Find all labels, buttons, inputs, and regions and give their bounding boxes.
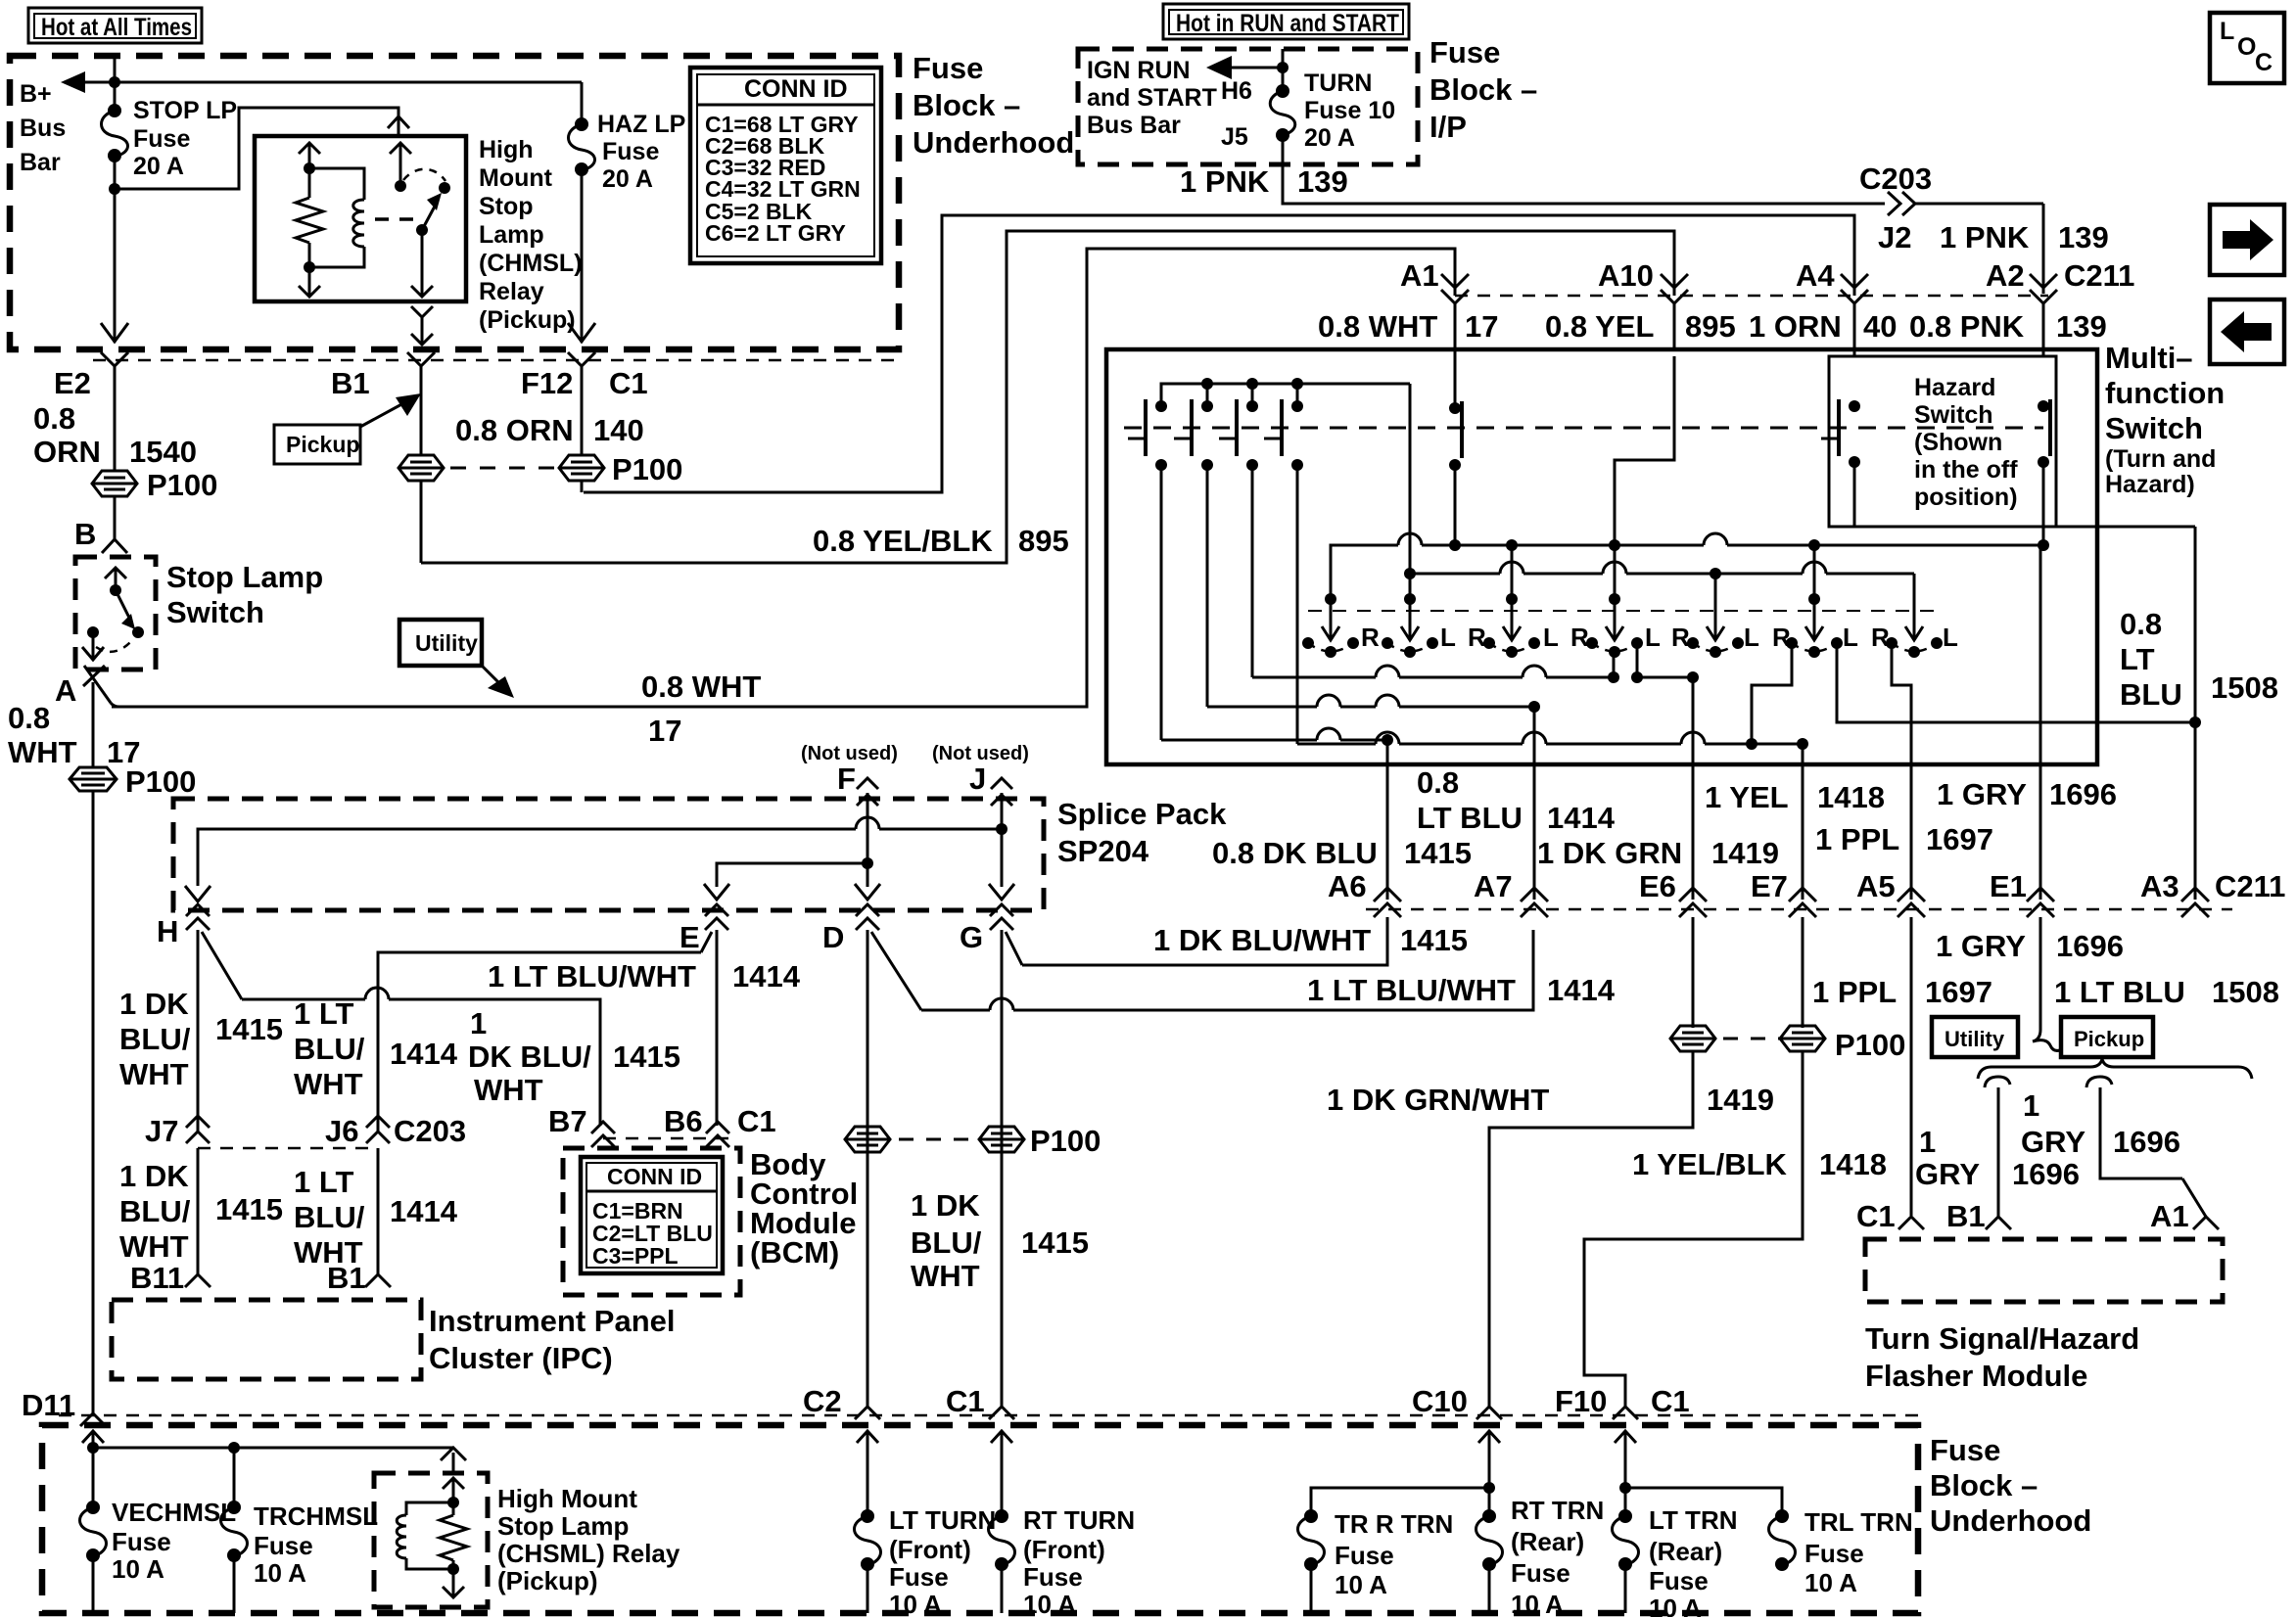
text 1 PPL 1697 (A5 below) [1812, 975, 1992, 1009]
svg-text:139: 139 [2056, 309, 2107, 344]
svg-text:20 A: 20 A [1304, 124, 1355, 152]
stop lamp switch blade [116, 590, 144, 638]
inline connector P100 (E2 wire) [92, 471, 137, 496]
relay entry arrow [443, 1478, 464, 1508]
svg-text:Instrument Panel: Instrument Panel [429, 1304, 676, 1338]
F10/C1 feed arrow [1615, 1431, 1636, 1456]
svg-text:895: 895 [1685, 309, 1736, 344]
svg-text:1 LT BLU/WHT: 1 LT BLU/WHT [1307, 973, 1516, 1007]
svg-text:0.8: 0.8 [33, 401, 75, 436]
svg-text:A2: A2 [1986, 258, 2025, 293]
wire hazard A4 lower to LT BLU exit [1854, 462, 2195, 527]
svg-text:Underhood: Underhood [913, 125, 1074, 160]
E1 exit wire [2039, 764, 2042, 900]
svg-text:J5: J5 [1221, 123, 1248, 151]
fuse block connector row thin dashed (bottom) [59, 1414, 1918, 1417]
svg-text:G: G [960, 920, 983, 954]
svg-text:1418: 1418 [1817, 780, 1885, 814]
svg-text:20 A: 20 A [602, 165, 653, 193]
svg-text:LT TRN: LT TRN [1649, 1505, 1738, 1535]
svg-text:Fuse: Fuse [889, 1562, 949, 1592]
svg-text:Utility: Utility [1945, 1027, 2005, 1051]
hazard actuation dashed [1829, 427, 2043, 430]
flasher pickup hook wire [2086, 1077, 2206, 1217]
svg-text:A1: A1 [1400, 258, 1439, 293]
svg-text:WHT: WHT [119, 1057, 189, 1091]
svg-text:0.8 YEL: 0.8 YEL [1545, 309, 1654, 344]
multifunction switch box [1106, 349, 2097, 764]
svg-text:Stop: Stop [479, 193, 534, 220]
contact column 4 [1264, 378, 1303, 471]
flasher A1 connector chevron [2193, 1217, 2219, 1229]
svg-text:0.8 ORN: 0.8 ORN [455, 413, 574, 447]
svg-text:1696: 1696 [2012, 1157, 2080, 1191]
A2 connector chevrons [2030, 274, 2057, 356]
svg-text:C1: C1 [1856, 1199, 1896, 1233]
E7 exit wire [1802, 744, 1804, 900]
node resistor bottom [304, 261, 315, 273]
svg-text:Relay: Relay [479, 278, 544, 305]
svg-text:10 A: 10 A [1649, 1594, 1702, 1617]
svg-text:E7: E7 [1751, 869, 1788, 903]
wire A down 0.8 WHT 17 [92, 707, 95, 767]
wire B+ to HAZ LP fuse [581, 82, 584, 123]
svg-text:HAZ LP: HAZ LP [597, 111, 685, 138]
wire junction down to E2 with arrow [101, 189, 128, 343]
svg-text:B11: B11 [130, 1261, 184, 1295]
svg-text:1415: 1415 [1021, 1225, 1089, 1260]
wire B1 P100 to YEL/BLK elbow [420, 481, 423, 563]
svg-text:0.8 YEL/BLK: 0.8 YEL/BLK [813, 524, 993, 558]
text 1 DK BLU/WHT (J7 above) [119, 987, 191, 1091]
text 0.8 LT BLU (right) [2120, 607, 2182, 712]
LOC legend box [2210, 13, 2284, 83]
E6 exit wire [1692, 677, 1695, 900]
A7 exit wire [1533, 707, 1536, 900]
text Fuse Block - I/P [1429, 35, 1537, 144]
E connector below splice [705, 904, 728, 930]
fuse STOP LP 20A [102, 104, 128, 162]
svg-text:Flasher Module: Flasher Module [1865, 1359, 2087, 1393]
svg-text:20 A: 20 A [133, 153, 184, 180]
svg-text:1697: 1697 [1926, 822, 1993, 856]
text 1 LT BLU/WHT (J6 above) [294, 996, 365, 1101]
svg-text:P100: P100 [1030, 1124, 1101, 1158]
svg-text:10 A: 10 A [1511, 1590, 1564, 1617]
wire top to TURN fuse [1282, 49, 1285, 90]
svg-text:Fuse: Fuse [1930, 1433, 2000, 1467]
text Stop Lamp Switch [166, 560, 323, 629]
splice pack dashed box [173, 799, 1044, 910]
wire HAZ LP fuse down to C1 with arrow [568, 169, 595, 343]
svg-text:WHT: WHT [911, 1259, 980, 1293]
A5 connector chevrons [1898, 888, 1925, 1216]
svg-text:1 LT: 1 LT [294, 1165, 353, 1199]
svg-text:ORN: ORN [33, 435, 101, 469]
contact column 1 [1128, 399, 1167, 471]
svg-text:L: L [2220, 18, 2234, 45]
svg-text:LT: LT [2120, 642, 2155, 676]
text Hazard Switch (Shown in the off position) [1914, 374, 2018, 511]
svg-text:function: function [2105, 376, 2225, 410]
svg-text:Fuse: Fuse [602, 138, 659, 165]
svg-text:10 A: 10 A [254, 1558, 306, 1588]
BCM connector row thin dashed [603, 1137, 729, 1140]
text (Not used) F [801, 743, 898, 796]
text Fuse Block - Underhood (bottom) [1930, 1433, 2091, 1538]
svg-text:C1: C1 [946, 1384, 985, 1418]
wire H diagonal to B7 line [202, 932, 600, 1126]
svg-text:0.8: 0.8 [1417, 765, 1459, 800]
svg-text:1415: 1415 [215, 1012, 283, 1046]
text 1 GRY 1696 (E1 above) [1937, 777, 2117, 811]
B1 female connector (IPC) [365, 1274, 391, 1287]
svg-text:C: C [2255, 49, 2273, 76]
wire D diagonal to A7 line [871, 930, 1533, 1010]
svg-text:1697: 1697 [1925, 975, 1992, 1009]
bus B [1404, 562, 1914, 599]
wire F12 P100 down to ORN elbow [581, 481, 584, 492]
svg-text:Fuse: Fuse [133, 125, 190, 153]
svg-text:CONN ID: CONN ID [744, 75, 848, 103]
relay actuation dashed link [375, 217, 419, 221]
text RT TRN (Rear) Fuse 10 A [1511, 1496, 1604, 1617]
svg-text:Fuse: Fuse [1023, 1562, 1083, 1592]
svg-text:A4: A4 [1796, 258, 1835, 293]
relay coil (bottom) [397, 1502, 453, 1569]
splice bus [198, 817, 1007, 886]
J wire to G arrow [989, 829, 1014, 900]
svg-text:Underhood: Underhood [1930, 1503, 2091, 1538]
svg-text:1 DK BLU/WHT: 1 DK BLU/WHT [1153, 923, 1371, 957]
svg-text:(Front): (Front) [1023, 1535, 1105, 1564]
node junction on B+ line [109, 76, 120, 88]
svg-text:P100: P100 [147, 468, 217, 502]
svg-text:1 ORN: 1 ORN [1749, 309, 1842, 344]
svg-text:H: H [157, 914, 178, 948]
svg-text:A10: A10 [1598, 258, 1654, 293]
svg-text:P100: P100 [1835, 1028, 1905, 1062]
svg-text:TRCHMSL: TRCHMSL [254, 1501, 378, 1531]
svg-text:LT TURN: LT TURN [889, 1505, 996, 1535]
svg-text:1 DK: 1 DK [911, 1188, 980, 1223]
connector C203 chevrons on PNK wire [1888, 192, 2043, 215]
wire G down to C1 [1001, 930, 1004, 1407]
text 1 DK GRN/WHT 1419 [1327, 1083, 1774, 1117]
svg-text:1 GRY: 1 GRY [1936, 929, 2026, 963]
svg-text:1 LT BLU: 1 LT BLU [2054, 975, 2185, 1009]
dashes between BCM P100 pair [899, 1138, 971, 1141]
fuse TRL TRN 10A [1769, 1509, 1796, 1571]
E2 female connector [101, 352, 128, 470]
text HAZ LP Fuse 20 A [597, 111, 685, 193]
svg-text:B1: B1 [327, 1261, 366, 1295]
IGN RUN arrow [1206, 56, 1289, 79]
svg-text:BLU/: BLU/ [294, 1200, 365, 1234]
wire P100 down to D11 [92, 791, 95, 1413]
wire fuse to junction [114, 156, 117, 189]
svg-text:Turn Signal/Hazard: Turn Signal/Hazard [1865, 1321, 2139, 1356]
svg-text:A1: A1 [2150, 1199, 2189, 1233]
D11 connector chevron [80, 1413, 106, 1426]
switch actuation dashed line [1124, 427, 1829, 430]
svg-text:1: 1 [470, 1006, 487, 1040]
svg-text:10 A: 10 A [889, 1590, 942, 1617]
svg-text:BLU/: BLU/ [294, 1032, 365, 1066]
svg-text:SP204: SP204 [1057, 834, 1149, 868]
A1 connector chevrons [1441, 274, 1469, 349]
turn signal wiper column 2 [1382, 593, 1438, 658]
text TURN Fuse 10 20 A [1304, 69, 1395, 152]
connector row E2/B1/F12/C1 thin dashed [93, 359, 899, 362]
fuse block left bus [87, 1442, 453, 1454]
relay switch dashed arc [403, 169, 445, 181]
svg-text:0.8 WHT: 0.8 WHT [1318, 309, 1437, 344]
svg-text:1 GRY: 1 GRY [1937, 777, 2027, 811]
resistor branch arrow down [299, 267, 320, 297]
stop lamp switch lower contact [82, 626, 104, 660]
svg-text:BLU/: BLU/ [911, 1225, 982, 1260]
svg-text:A: A [55, 673, 76, 708]
utility callout box (flasher) [1932, 1017, 2018, 1057]
svg-text:Fuse: Fuse [1804, 1539, 1864, 1568]
upper contact 2 output elbow to A7 [1207, 465, 1540, 713]
svg-text:F: F [837, 762, 856, 796]
svg-text:0.8: 0.8 [2120, 607, 2162, 641]
wire E7 down and left to F10 [1584, 1051, 1803, 1407]
svg-text:TR R TRN: TR R TRN [1335, 1509, 1453, 1539]
flasher B1 connector chevron [1986, 1217, 2011, 1229]
text GRY 1696 (pickup branch) [2021, 1125, 2180, 1159]
left turn arrow legend box [2210, 300, 2284, 364]
svg-text:Hazard: Hazard [1914, 374, 1995, 401]
svg-text:C3=PPL: C3=PPL [592, 1243, 679, 1269]
text 0.8 WHT (A wire) [8, 701, 77, 769]
instrument panel cluster dashed box [112, 1300, 421, 1379]
text High Mount Stop Lamp (CHMSL) Relay (Pickup) [479, 136, 583, 334]
svg-text:J7: J7 [145, 1114, 178, 1148]
A6 connector chevrons [1374, 888, 1401, 930]
wire E diagonal to J6 line [378, 932, 712, 1133]
fuse block underhood dashed box (top left) [10, 56, 899, 349]
svg-text:BLU/: BLU/ [119, 1194, 191, 1228]
fuse block I/P dashed box [1078, 49, 1418, 164]
A10 connector chevrons [1661, 274, 1688, 349]
E7 connector chevrons [1789, 888, 1816, 1028]
E6 connector chevrons [1679, 888, 1707, 1028]
svg-text:0.8 WHT: 0.8 WHT [641, 670, 761, 704]
svg-text:1418: 1418 [1819, 1147, 1887, 1181]
svg-text:B+: B+ [20, 80, 52, 108]
text 0.8 DK BLU 1415 (A6) [1212, 836, 1472, 870]
svg-text:IGN RUN: IGN RUN [1087, 57, 1191, 84]
svg-text:1: 1 [1919, 1125, 1936, 1159]
svg-text:10 A: 10 A [112, 1554, 164, 1584]
svg-text:1414: 1414 [390, 1194, 458, 1228]
text (Not used) J [932, 743, 1029, 796]
utility callout box [399, 620, 514, 698]
text 1 GRY 1696 (E1 below) [1936, 929, 2124, 963]
resistor in relay [296, 168, 323, 267]
relay feed connector arrow [441, 1448, 466, 1471]
text TR R TRN Fuse 10 A [1335, 1509, 1453, 1599]
svg-text:J: J [969, 762, 986, 796]
svg-text:Pickup: Pickup [286, 432, 359, 457]
svg-text:BLU: BLU [2120, 677, 2182, 712]
turn signal wiper column 5 [1687, 599, 1744, 658]
splice bus H arrow down [185, 886, 211, 901]
B1 female connector (relay output) [407, 352, 435, 455]
svg-text:WHT: WHT [119, 1229, 189, 1264]
stop lamp switch contact arrow up [105, 568, 126, 596]
svg-text:1414: 1414 [1547, 801, 1616, 835]
svg-text:1: 1 [2023, 1088, 2039, 1123]
svg-text:B6: B6 [664, 1104, 703, 1138]
svg-text:Lamp: Lamp [479, 221, 544, 249]
svg-text:B: B [74, 517, 96, 551]
connector A below stop lamp switch [83, 666, 119, 707]
wire 1 ORN 40 feed (from F12) [584, 215, 1854, 492]
relay output arrow (bottom) [443, 1563, 464, 1597]
svg-text:1 PNK: 1 PNK [1180, 164, 1270, 199]
text VECHMSL Fuse 10 A [112, 1498, 236, 1584]
svg-text:(CHMSL): (CHMSL) [479, 250, 583, 277]
svg-text:(Rear): (Rear) [1649, 1537, 1722, 1566]
fuse TRCHMSL 10A [221, 1448, 248, 1613]
svg-text:Block –: Block – [913, 88, 1020, 122]
svg-text:40: 40 [1863, 309, 1897, 344]
svg-text:Bus: Bus [20, 115, 66, 142]
A6 exit wire [1386, 740, 1389, 900]
svg-text:1508: 1508 [2211, 670, 2278, 705]
contact column 3 [1219, 378, 1258, 471]
connector row C203 (J7/J6) thin dashed [198, 1147, 378, 1150]
H connector below splice [186, 904, 210, 930]
svg-text:J6: J6 [325, 1114, 358, 1148]
svg-text:1 PPL: 1 PPL [1815, 822, 1899, 856]
svg-text:1 LT BLU/WHT: 1 LT BLU/WHT [488, 959, 696, 993]
svg-text:BLU/: BLU/ [119, 1022, 191, 1056]
relay coil branch [309, 168, 364, 267]
fuse HAZ LP 20A [569, 117, 595, 176]
turn signal hazard flasher dashed box [1865, 1239, 2223, 1302]
svg-text:Fuse: Fuse [112, 1527, 171, 1556]
pickup callout box [274, 393, 421, 464]
svg-text:1 DK GRN/WHT: 1 DK GRN/WHT [1327, 1083, 1549, 1117]
text TRCHMSL Fuse 10 A [254, 1501, 378, 1588]
LT BLU exit wire to A3 [2194, 527, 2197, 900]
svg-text:Switch: Switch [166, 595, 264, 629]
fuse block underhood dashed box (bottom) [42, 1425, 1918, 1613]
svg-text:Fuse: Fuse [1335, 1541, 1394, 1570]
svg-text:CONN ID: CONN ID [607, 1164, 702, 1189]
svg-text:C6=2 LT GRY: C6=2 LT GRY [705, 220, 846, 246]
svg-text:Stop Lamp: Stop Lamp [166, 560, 323, 594]
fuse RT TRN (Rear) 10A [1476, 1509, 1503, 1613]
text IGN RUN and START Bus Bar [1087, 57, 1217, 139]
wire branch to CHMSL relay [115, 108, 409, 189]
CONN ID table (BCM) [581, 1157, 723, 1273]
F10 bus to TRL TRN [1619, 1448, 1782, 1516]
inline connector P100 (C2 wire) [845, 1127, 890, 1152]
contact column 2 [1174, 378, 1213, 471]
label box Hot in RUN and START [1163, 4, 1409, 39]
svg-text:C1: C1 [737, 1104, 776, 1138]
svg-text:Hot at All Times: Hot at All Times [41, 14, 192, 41]
relay resistor (bottom) [440, 1502, 467, 1569]
text 0.8 ORN (E2) [33, 401, 101, 469]
svg-text:(Front): (Front) [889, 1535, 971, 1564]
turn signal wiper column 6 [1786, 593, 1843, 658]
wire D down to C2 [867, 930, 869, 1407]
A5 exit wire [1910, 764, 1913, 900]
dashes between P100 pair (top) [450, 467, 563, 470]
svg-text:E2: E2 [54, 366, 91, 400]
svg-text:A3: A3 [2140, 869, 2179, 903]
svg-text:1414: 1414 [390, 1037, 458, 1071]
wire E6 down and left to C10 [1489, 1051, 1693, 1407]
fuse LT TURN (Front) 10A [855, 1448, 881, 1613]
svg-text:Fuse: Fuse [913, 51, 983, 85]
text LT TURN (Front) Fuse 10 A [889, 1505, 996, 1617]
svg-text:1 DK: 1 DK [119, 987, 189, 1021]
label box Hot at All Times [28, 8, 202, 43]
G connector below splice [990, 904, 1013, 930]
svg-text:17: 17 [648, 714, 681, 748]
svg-text:J2: J2 [1878, 220, 1911, 254]
svg-text:1540: 1540 [129, 435, 197, 469]
svg-text:1 DK: 1 DK [119, 1159, 189, 1193]
B11 female connector [185, 1274, 211, 1287]
svg-text:Mount: Mount [479, 164, 553, 192]
wire hazard A2 lower to bus A [2042, 462, 2045, 545]
text 1 GRY 1696 (utility branch) [1915, 1125, 2080, 1191]
inline connector P100 (A wire) [70, 767, 117, 791]
svg-text:1 DK GRN: 1 DK GRN [1537, 836, 1682, 870]
text 1 LT BLU 1508 (A3 below) [2054, 975, 2279, 1009]
svg-text:1696: 1696 [2056, 929, 2124, 963]
svg-text:Switch: Switch [1914, 401, 1993, 429]
svg-text:L: L [1440, 623, 1456, 652]
svg-text:(CHSML) Relay: (CHSML) Relay [497, 1539, 680, 1568]
hazard contact A2 [2038, 399, 2050, 468]
svg-text:Stop Lamp: Stop Lamp [497, 1511, 629, 1541]
CHSML relay dashed box (bottom) [374, 1473, 488, 1607]
svg-text:L: L [1744, 623, 1759, 652]
connector row C211 top dashed [1455, 295, 2048, 298]
svg-text:Bus Bar: Bus Bar [1087, 112, 1181, 139]
C1 connector chevron [989, 1407, 1014, 1419]
svg-text:1419: 1419 [1711, 836, 1779, 870]
fuse VECHMSL 10A [80, 1448, 107, 1613]
text 0.8 LT BLU (A6 above) [1417, 765, 1523, 835]
svg-text:Block –: Block – [1930, 1468, 2038, 1502]
svg-text:Block –: Block – [1429, 72, 1537, 107]
wire 0.8 YEL/BLK 895 feed (from B1 relay) [421, 231, 1674, 563]
D11 entry arrow inside fuse block [82, 1431, 104, 1456]
svg-text:Fuse: Fuse [1649, 1566, 1709, 1595]
svg-text:1 YEL/BLK: 1 YEL/BLK [1632, 1147, 1788, 1181]
svg-text:(Shown: (Shown [1914, 429, 2002, 456]
svg-text:1415: 1415 [1400, 923, 1468, 957]
svg-text:R: R [1671, 623, 1690, 652]
D connector below splice [856, 904, 879, 930]
svg-text:P100: P100 [125, 764, 196, 799]
wire P100 to stop lamp switch B [102, 496, 127, 553]
svg-text:A5: A5 [1856, 869, 1896, 903]
svg-text:Fuse: Fuse [1429, 35, 1500, 69]
text Body Control Module (BCM) [750, 1147, 858, 1270]
